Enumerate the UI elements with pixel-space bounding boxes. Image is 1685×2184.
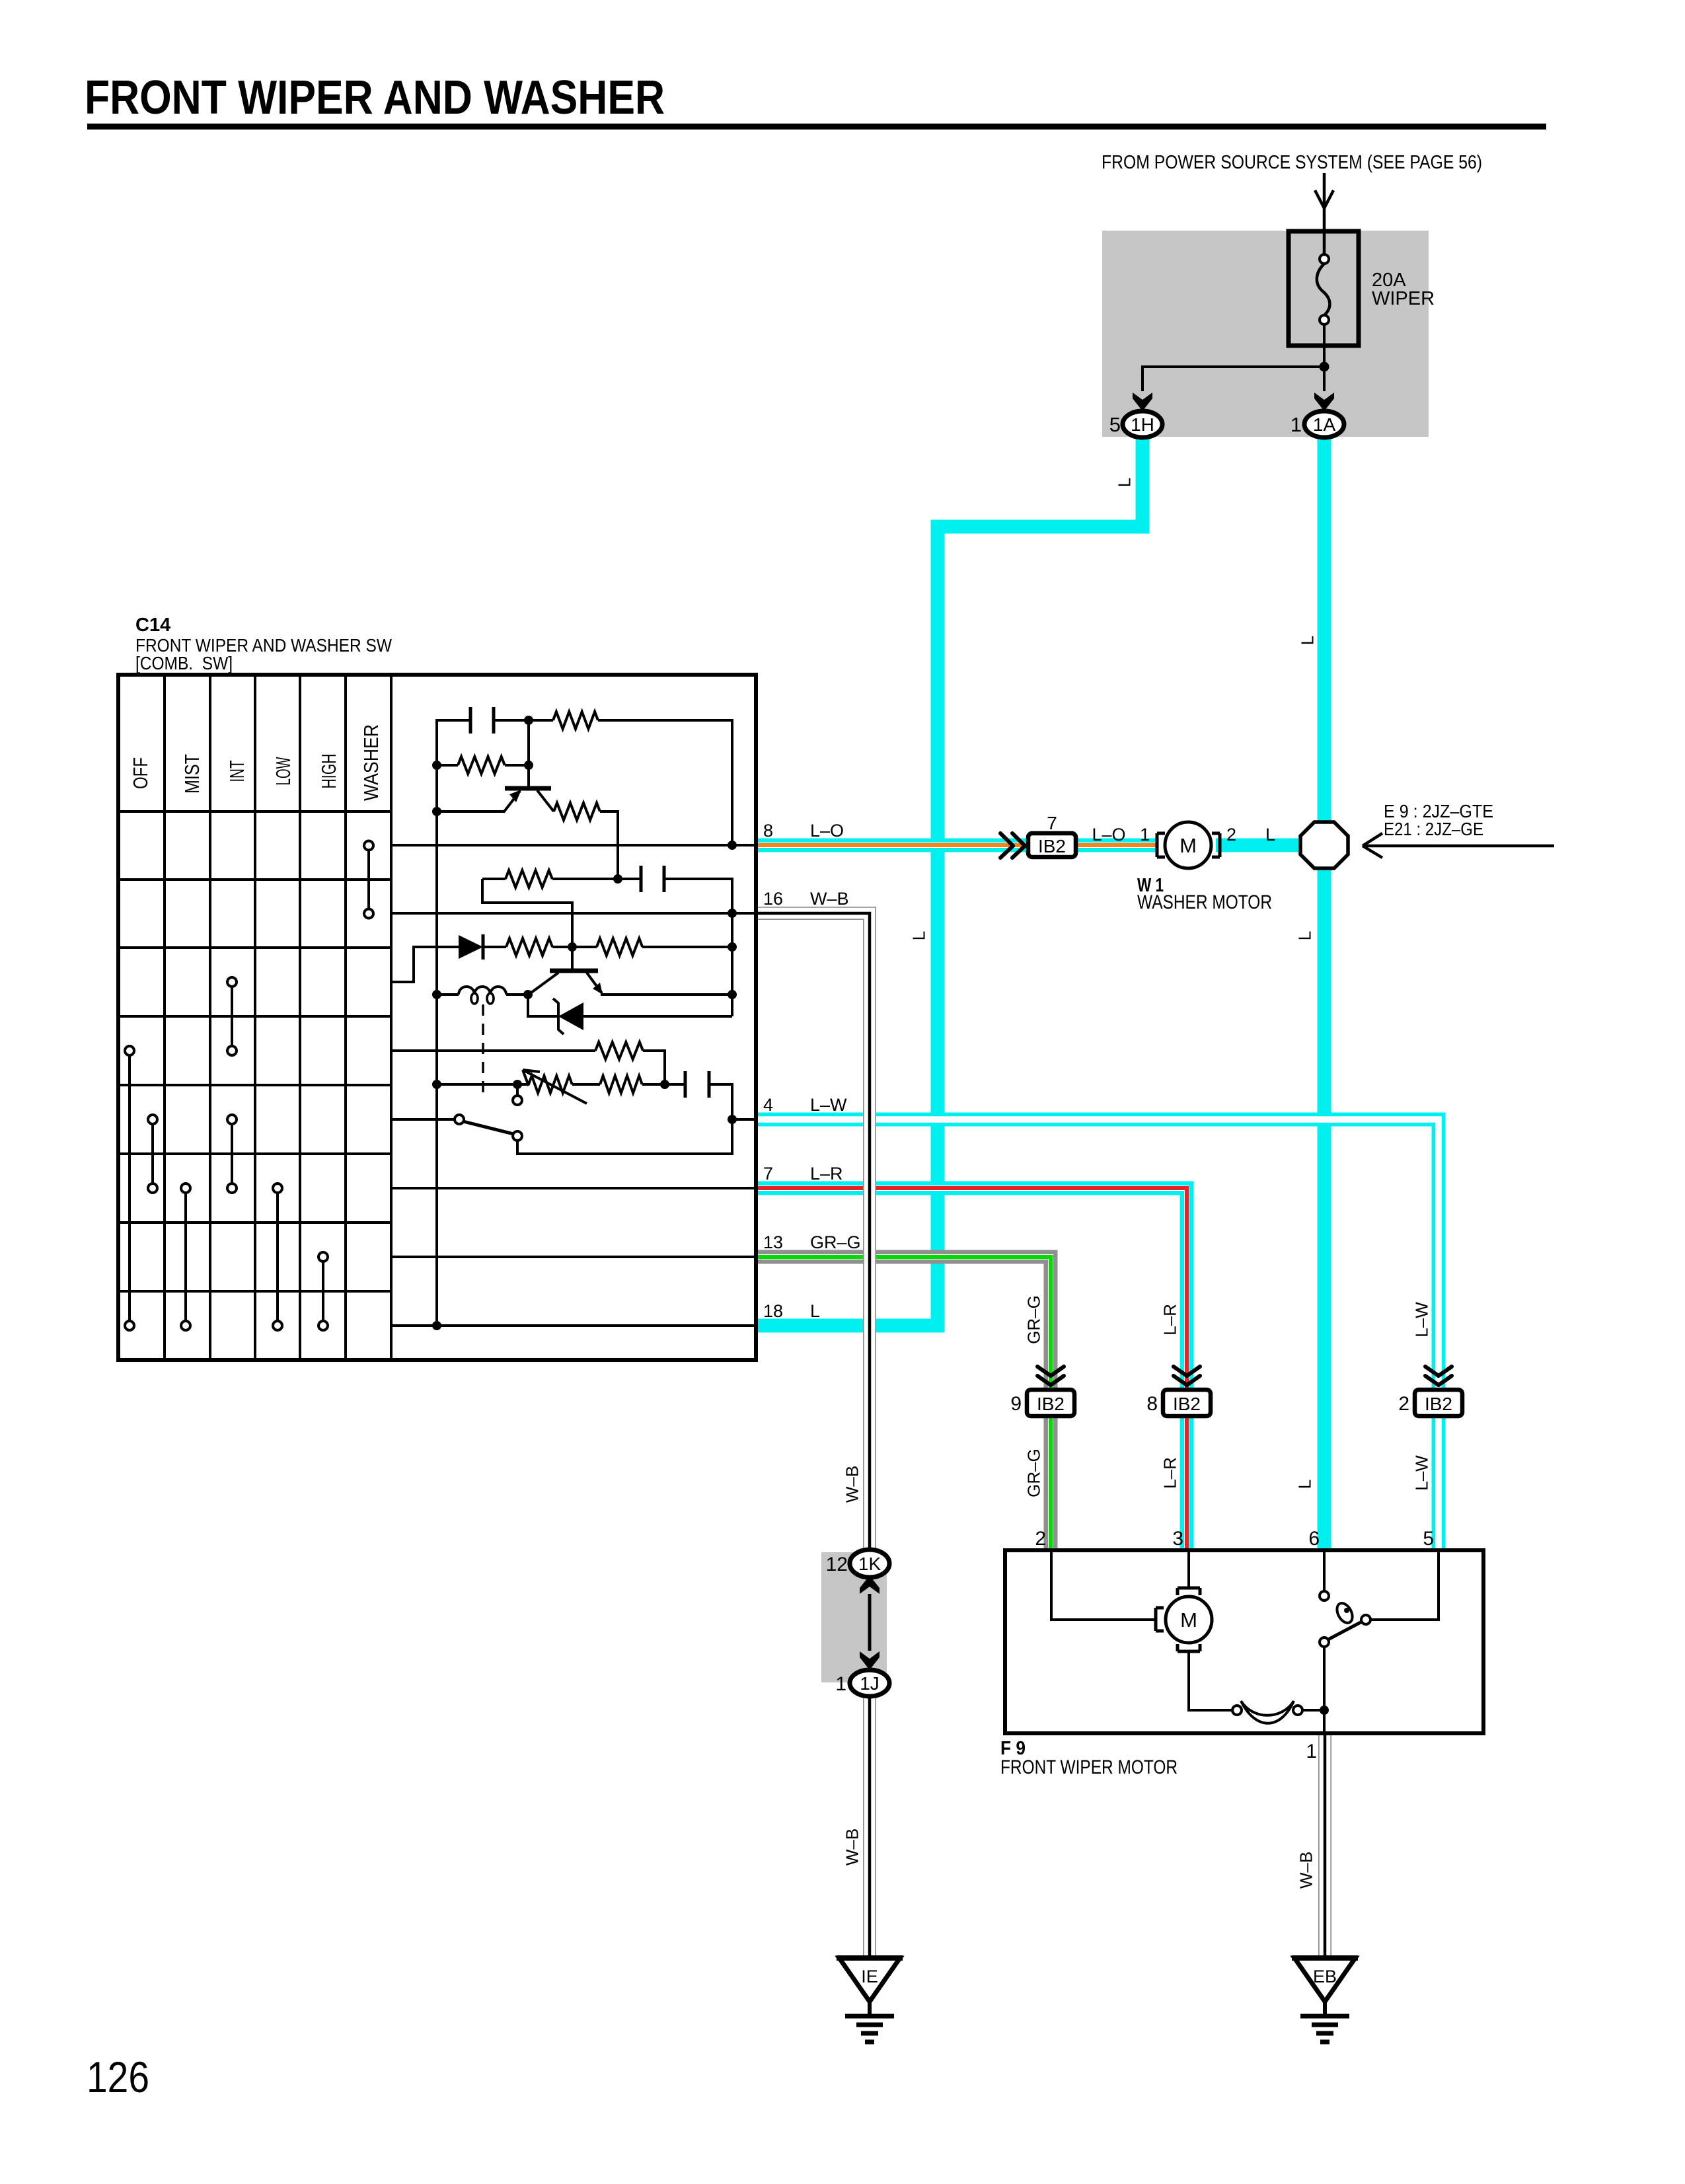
svg-text:C14: C14 bbox=[135, 615, 170, 636]
svg-text:1: 1 bbox=[835, 1673, 846, 1695]
fuse 20A WIPER bbox=[1289, 231, 1359, 346]
junction block gray panel bbox=[1102, 231, 1429, 437]
svg-text:FRONT WIPER MOTOR: FRONT WIPER MOTOR bbox=[1000, 1756, 1178, 1778]
svg-text:1A: 1A bbox=[1313, 414, 1336, 435]
arrow up into 1K bbox=[860, 1575, 880, 1594]
node Q2 base junction bbox=[568, 942, 577, 952]
svg-text:L–W: L–W bbox=[810, 1095, 847, 1115]
wire R4 left leg to Q2 base bbox=[482, 879, 572, 947]
svg-text:OFF: OFF bbox=[129, 757, 152, 789]
chevron into IB2 pin 7 bbox=[1000, 833, 1013, 858]
front wiper motor F9 box bbox=[1005, 1550, 1483, 1733]
svg-text:M: M bbox=[1180, 1608, 1197, 1632]
svg-text:13: 13 bbox=[763, 1232, 783, 1252]
svg-text:L: L bbox=[810, 1301, 820, 1321]
resistor R8 bbox=[572, 1083, 600, 1086]
park switch lever bbox=[1328, 1622, 1362, 1639]
chevron into IB2 pin 9 bbox=[1037, 1367, 1064, 1376]
svg-text:GR–G: GR–G bbox=[1024, 1295, 1043, 1344]
connector IB2 pin 8 bbox=[1163, 1390, 1211, 1416]
wire GR-G: switch pin 13 to junction IB2 pin 9 bbox=[756, 1257, 1051, 1390]
node riser at diode row bbox=[728, 942, 737, 952]
svg-text:WIPER: WIPER bbox=[1372, 288, 1435, 309]
svg-text:WASHER: WASHER bbox=[359, 724, 383, 801]
table grid bbox=[118, 675, 391, 1360]
capacitor C3 bbox=[665, 1083, 685, 1086]
connector IB2 pin 2 bbox=[1415, 1390, 1462, 1416]
svg-text:L–R: L–R bbox=[1160, 1304, 1179, 1336]
node park junction bbox=[1320, 1706, 1329, 1715]
wire L trunk: 1A pin1 to wiper motor pin 6 bbox=[1318, 436, 1331, 1550]
connector 1A pin 1 bbox=[1304, 411, 1344, 437]
wire GR-G: IB2 to wiper motor pin 2 bbox=[1044, 1416, 1058, 1550]
svg-text:MIST: MIST bbox=[180, 754, 204, 794]
svg-text:IE: IE bbox=[861, 1967, 878, 1986]
svg-text:1K: 1K bbox=[858, 1554, 881, 1574]
wire W-B: connector 1J to ground IE bbox=[863, 1696, 876, 1958]
svg-text:GR–G: GR–G bbox=[1024, 1449, 1043, 1497]
chevron into IB2 pin 2 bbox=[1425, 1367, 1452, 1376]
node: fuse output junction bbox=[1320, 362, 1329, 372]
transistor Q1 bbox=[505, 786, 551, 791]
washer contact bbox=[367, 846, 370, 914]
wire pin 13 row bbox=[391, 1256, 756, 1258]
off contact bbox=[128, 1051, 131, 1326]
svg-text:12: 12 bbox=[826, 1554, 848, 1575]
svg-text:1H: 1H bbox=[1131, 414, 1154, 435]
wire R7 feed row bbox=[391, 1049, 595, 1052]
node C1/R1 junction bbox=[524, 716, 533, 725]
mechanical link dashed bbox=[482, 1004, 484, 1098]
svg-text:W–B: W–B bbox=[842, 1466, 862, 1503]
svg-text:L–W: L–W bbox=[1411, 1302, 1431, 1337]
wiper motor M bbox=[1154, 1608, 1158, 1631]
wire L-R: IB2 to wiper motor pin 3 bbox=[1180, 1416, 1194, 1550]
wire left bus bbox=[437, 720, 470, 1326]
svg-text:E21 : 2JZ–GE: E21 : 2JZ–GE bbox=[1384, 819, 1483, 839]
wire L-R: switch pin 7 to junction IB2 pin 8 bbox=[756, 1188, 1187, 1390]
svg-text:IB2: IB2 bbox=[1037, 1394, 1065, 1414]
node bus/VR row bbox=[432, 1080, 441, 1089]
wire L net: 1H pin5 to switch pin 18 bbox=[756, 436, 1142, 1326]
page connector octagon E9/E21 bbox=[1300, 822, 1348, 868]
wire pin 8 row bbox=[391, 844, 756, 847]
connector IB2 pin 9 bbox=[1027, 1390, 1074, 1416]
node bus/R2 bbox=[432, 761, 441, 770]
svg-text:8: 8 bbox=[1146, 1393, 1158, 1415]
svg-text:2: 2 bbox=[1035, 1528, 1046, 1550]
resistor R2 bbox=[437, 764, 458, 767]
svg-text:IB2: IB2 bbox=[1038, 836, 1066, 856]
wire L-W: IB2 to wiper motor pin 5 bbox=[1432, 1416, 1446, 1550]
low contact bbox=[276, 1188, 279, 1326]
svg-text:WASHER MOTOR: WASHER MOTOR bbox=[1137, 891, 1272, 913]
int relay contact bbox=[231, 982, 233, 1051]
svg-text:GR–G: GR–G bbox=[810, 1232, 861, 1252]
node bus/Q1 emitter bbox=[432, 807, 441, 816]
svg-text:M: M bbox=[1179, 834, 1197, 857]
wire fuse to 1A bbox=[1323, 367, 1326, 391]
svg-text:4: 4 bbox=[763, 1095, 773, 1115]
int wiper contact bbox=[231, 1119, 233, 1188]
connector gray panel 1K 1J bbox=[821, 1552, 887, 1682]
node coil/Q2 collector bbox=[523, 990, 533, 999]
wire W-B: wiper motor pin 1 to ground EB bbox=[1318, 1731, 1331, 1958]
wire fuse to 1H bbox=[1142, 367, 1324, 391]
wire L-W: switch pin 4 to junction IB2 pin 2 bbox=[756, 1119, 1439, 1390]
svg-text:2: 2 bbox=[1226, 825, 1236, 845]
svg-text:EB: EB bbox=[1313, 1967, 1337, 1986]
wiper motor to park cam bbox=[1189, 1651, 1233, 1710]
svg-text:L: L bbox=[1297, 636, 1317, 645]
wire pin 7 row bbox=[391, 1187, 756, 1189]
diode D1 bbox=[459, 935, 483, 959]
ground IE bbox=[839, 1958, 900, 2002]
svg-text:2: 2 bbox=[1398, 1393, 1409, 1415]
svg-text:7: 7 bbox=[1047, 813, 1057, 833]
high contact bbox=[322, 1257, 324, 1326]
title rule bbox=[87, 124, 1546, 130]
wire pin 18 row bbox=[391, 1324, 756, 1327]
park switch contact pin 6 bbox=[1323, 1550, 1326, 1591]
svg-text:1J: 1J bbox=[860, 1673, 880, 1694]
svg-text:126: 126 bbox=[87, 2052, 149, 2101]
svg-text:16: 16 bbox=[763, 889, 783, 909]
wire W-B: switch pin 16 to connector 1K bbox=[756, 913, 870, 1550]
switch C14 combination switch box bbox=[118, 675, 756, 1360]
node riser at emitter row bbox=[728, 990, 737, 999]
svg-text:W–B: W–B bbox=[810, 889, 849, 909]
svg-text:8: 8 bbox=[763, 821, 773, 841]
node R2/base junction bbox=[524, 761, 533, 770]
capacitor C2 bbox=[640, 866, 643, 892]
capacitor C1 bbox=[469, 707, 472, 734]
node pin 4 junction bbox=[728, 1115, 737, 1124]
svg-text:L–R: L–R bbox=[1160, 1457, 1179, 1489]
svg-text:L–R: L–R bbox=[810, 1164, 843, 1184]
wire pin 4 row left bbox=[391, 1118, 455, 1121]
svg-text:L–W: L–W bbox=[1411, 1455, 1431, 1491]
connector 1K pin 12 bbox=[850, 1550, 889, 1577]
node bus/coil bbox=[432, 990, 441, 999]
svg-text:1: 1 bbox=[1291, 413, 1302, 436]
svg-text:[COMB. SW]: [COMB. SW] bbox=[135, 653, 233, 673]
wire L-O: switch pin 8 to connector IB2 pin 7 bbox=[756, 839, 1028, 852]
svg-text:L: L bbox=[1294, 931, 1314, 940]
wire L-O: IB2 to washer motor pin 1 bbox=[1076, 839, 1158, 852]
svg-text:IB2: IB2 bbox=[1425, 1394, 1452, 1414]
resistor R6 bbox=[597, 938, 642, 956]
resistor R7 bbox=[595, 1042, 643, 1059]
connector 1H pin 5 bbox=[1123, 411, 1162, 437]
svg-text:1: 1 bbox=[1306, 1741, 1317, 1762]
svg-text:INT: INT bbox=[225, 760, 248, 782]
connector 1J pin 1 bbox=[850, 1670, 889, 1696]
svg-text:7: 7 bbox=[763, 1164, 773, 1184]
ground EB bbox=[1294, 1958, 1355, 2002]
node R3/R4 junction bbox=[613, 874, 622, 884]
wire park contact down bbox=[1323, 1646, 1326, 1710]
svg-text:LOW: LOW bbox=[272, 757, 295, 785]
svg-text:3: 3 bbox=[1172, 1528, 1183, 1550]
arrow down into 1J bbox=[860, 1651, 880, 1670]
svg-text:5: 5 bbox=[1109, 413, 1121, 436]
washer motor W1 bbox=[1157, 833, 1165, 857]
mist contact bbox=[184, 1188, 187, 1326]
svg-text:1: 1 bbox=[1140, 825, 1150, 845]
wire to pin 1 bbox=[1323, 1710, 1326, 1733]
svg-text:6: 6 bbox=[1308, 1528, 1320, 1550]
node R7/R8/C3 junction bbox=[660, 1080, 669, 1089]
svg-text:W–B: W–B bbox=[842, 1828, 862, 1865]
svg-text:FROM POWER SOURCE SYSTEM (SEE: FROM POWER SOURCE SYSTEM (SEE PAGE 56) bbox=[1102, 152, 1482, 173]
connector arrow into 1A bbox=[1314, 393, 1334, 411]
svg-text:HIGH: HIGH bbox=[317, 754, 340, 789]
resistor R4 bbox=[482, 878, 505, 880]
svg-text:L–O: L–O bbox=[810, 821, 844, 841]
wiper motor internal wiring pin 2 bbox=[1051, 1550, 1156, 1620]
park cam crescent bbox=[1241, 1701, 1294, 1723]
node R1 to pin 8 bbox=[728, 841, 737, 850]
svg-text:L: L bbox=[1294, 1480, 1314, 1489]
svg-text:L: L bbox=[1265, 825, 1275, 845]
svg-text:18: 18 bbox=[763, 1301, 783, 1321]
resistor R3 bbox=[554, 803, 600, 820]
svg-text:L: L bbox=[909, 931, 928, 940]
svg-text:L: L bbox=[1114, 478, 1134, 487]
svg-text:L–O: L–O bbox=[1092, 825, 1125, 845]
transistor Q2 bbox=[571, 947, 574, 969]
connector IB2 pin 7 bbox=[1028, 833, 1076, 857]
svg-text:9: 9 bbox=[1010, 1393, 1022, 1415]
wire diode feed from table bbox=[391, 947, 459, 982]
svg-text:FRONT WIPER AND WASHER: FRONT WIPER AND WASHER bbox=[85, 71, 665, 124]
arrow from engine harness bbox=[1363, 845, 1554, 848]
resistor R1 bbox=[529, 719, 553, 722]
zener diode D2 bbox=[528, 995, 558, 1016]
svg-text:W–B: W–B bbox=[1296, 1852, 1316, 1889]
power feed line with arrow bbox=[1323, 173, 1326, 254]
wiper lever switch SW1 bbox=[455, 1115, 464, 1124]
resistor R5 bbox=[506, 938, 552, 956]
wire pin 16 row bbox=[391, 912, 756, 915]
variable resistor VR1 bbox=[437, 1083, 529, 1086]
chevron into IB2 pin 8 bbox=[1174, 1367, 1200, 1376]
node pin18/bus junction bbox=[432, 1321, 441, 1330]
wire lever to pin 5 bbox=[1370, 1550, 1439, 1620]
connector arrow into 1H bbox=[1133, 393, 1152, 411]
off wiper contact bbox=[151, 1119, 154, 1188]
svg-text:5: 5 bbox=[1423, 1528, 1434, 1550]
relay coil L1 bbox=[437, 993, 459, 996]
svg-text:IB2: IB2 bbox=[1173, 1394, 1201, 1414]
node C2 right riser at pin16 bbox=[728, 909, 737, 918]
wire L: washer motor pin 2 to engine connector bbox=[1216, 839, 1315, 852]
wire to Q1 base bbox=[527, 720, 530, 787]
